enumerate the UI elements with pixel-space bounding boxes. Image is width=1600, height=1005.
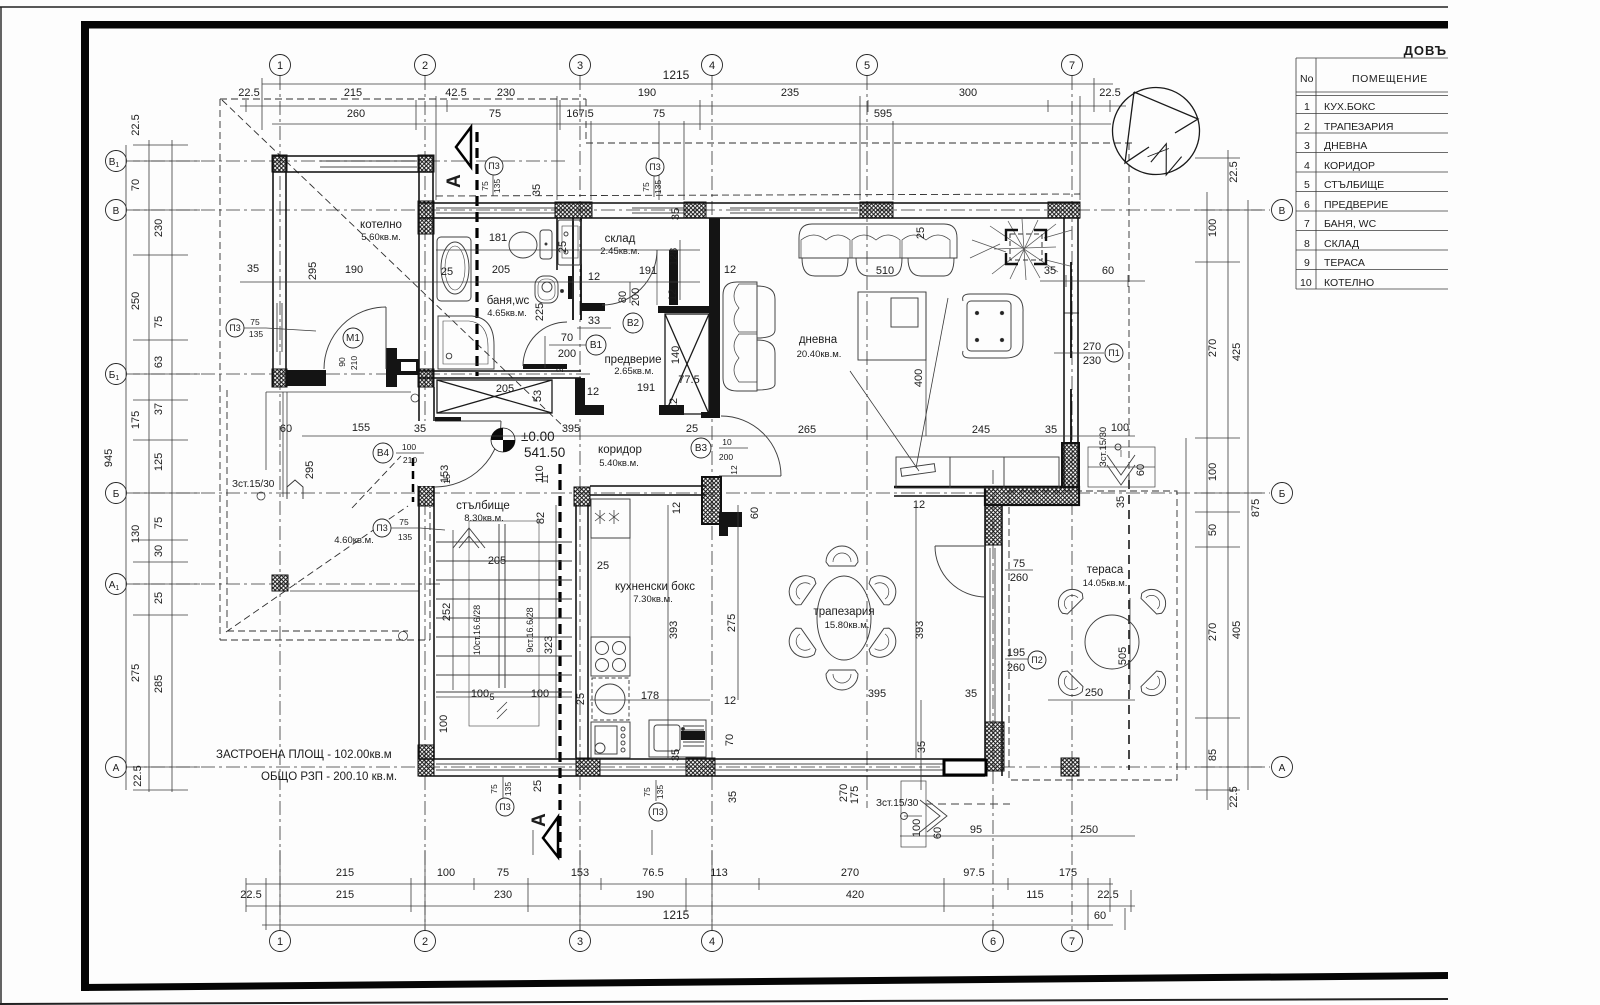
svg-text:12: 12	[724, 695, 736, 707]
svg-text:125: 125	[153, 453, 165, 471]
counter line	[591, 538, 630, 637]
hatched pier t2	[684, 202, 706, 218]
axis lines horizontal	[126, 161, 1270, 767]
oven knobs	[591, 722, 630, 758]
hatched column e1	[1062, 443, 1079, 487]
svg-text:260: 260	[1007, 662, 1025, 674]
svg-text:75: 75	[642, 787, 652, 797]
terrace steps symbol	[901, 781, 1011, 847]
svg-text:153: 153	[571, 867, 589, 879]
black niche	[568, 276, 572, 299]
svg-text:4.60кв.м.: 4.60кв.м.	[334, 535, 374, 546]
bath south wall / corridor band	[419, 371, 581, 378]
south wall black segment	[944, 760, 986, 775]
bubble B1 left	[106, 364, 127, 385]
svg-text:135: 135	[249, 329, 263, 339]
hatched pier t1	[555, 202, 592, 218]
shower	[438, 316, 494, 369]
svg-text:295: 295	[304, 461, 316, 479]
svg-text:12: 12	[667, 289, 679, 301]
bubble V1 left	[106, 151, 127, 172]
section line A-A bottom	[529, 464, 560, 858]
svg-text:ДОВЪ: ДОВЪ	[1404, 43, 1447, 58]
svg-text:П3: П3	[376, 523, 387, 533]
svg-text:15.80кв.м.: 15.80кв.м.	[825, 620, 870, 631]
svg-text:П3: П3	[488, 161, 499, 171]
svg-text:60: 60	[932, 827, 944, 839]
svg-text:22.5: 22.5	[1099, 87, 1120, 99]
svg-text:12: 12	[671, 502, 683, 514]
svg-text:12: 12	[729, 465, 739, 475]
left dimension chains	[103, 114, 200, 792]
terrace dashed outline	[1009, 491, 1177, 780]
svg-text:75: 75	[641, 182, 651, 192]
B1 marker	[586, 335, 606, 355]
bubble 6 bottom	[983, 931, 1004, 952]
P3 marker 6	[649, 803, 667, 821]
svg-text:кухненски бокс: кухненски бокс	[615, 581, 695, 593]
svg-text:75: 75	[489, 784, 499, 794]
svg-text:предверие: предверие	[604, 354, 661, 366]
corridor north wall seg1	[575, 405, 604, 415]
svg-text:25: 25	[915, 227, 927, 239]
dnevna-terrace steps symbol	[1088, 444, 1155, 487]
svg-text:210: 210	[349, 356, 359, 370]
svg-text:А: А	[1279, 763, 1286, 774]
svg-text:75: 75	[153, 316, 165, 328]
svg-text:113: 113	[710, 867, 728, 879]
svg-text:котелно: котелно	[360, 219, 402, 231]
bath door	[523, 364, 567, 369]
terrace door	[935, 546, 986, 597]
svg-text:В: В	[113, 206, 120, 217]
svg-text:35: 35	[414, 423, 426, 435]
roof diagonal	[222, 100, 565, 428]
B2 marker	[623, 313, 643, 333]
svg-text:945: 945	[103, 449, 115, 467]
svg-text:30: 30	[153, 545, 165, 557]
svg-text:405: 405	[1231, 621, 1243, 639]
boiler	[558, 220, 581, 265]
hatched column w1	[418, 486, 434, 506]
hatched column k5	[418, 201, 434, 234]
entry door	[435, 421, 501, 487]
svg-text:95: 95	[970, 824, 982, 836]
svg-text:300: 300	[959, 87, 977, 99]
hatched column k2	[418, 155, 434, 172]
svg-text:22.5: 22.5	[1228, 786, 1240, 807]
svg-text:7: 7	[1069, 936, 1075, 948]
armchair	[963, 294, 1023, 358]
hatched pier s1	[418, 745, 434, 776]
svg-text:50: 50	[1207, 524, 1219, 536]
svg-text:60: 60	[280, 423, 292, 435]
svg-text:10: 10	[722, 437, 732, 447]
svg-text:135: 135	[653, 180, 663, 194]
kotelno right wall	[419, 156, 433, 387]
svg-text:7.30кв.м.: 7.30кв.м.	[633, 594, 673, 605]
svg-text:3: 3	[1304, 140, 1310, 152]
svg-text:25: 25	[153, 592, 165, 604]
svg-text:178: 178	[641, 690, 659, 702]
svg-text:230: 230	[494, 889, 512, 901]
svg-text:37: 37	[153, 403, 165, 415]
kitchen corner L	[719, 512, 742, 536]
hatched column tw1	[985, 505, 1002, 545]
svg-text:100: 100	[438, 715, 450, 733]
svg-text:33: 33	[588, 315, 600, 327]
bubble A1 left	[106, 574, 127, 595]
svg-text:90: 90	[337, 357, 347, 367]
svg-text:75: 75	[153, 517, 165, 529]
svg-text:11: 11	[540, 474, 550, 483]
svg-text:230: 230	[153, 219, 165, 237]
svg-text:9: 9	[1304, 257, 1310, 269]
svg-text:22.5: 22.5	[1097, 889, 1118, 901]
leader lines dnevna	[850, 371, 919, 471]
svg-text:ДНЕВНА: ДНЕВНА	[1324, 140, 1367, 152]
svg-text:22.5: 22.5	[240, 889, 261, 901]
bathtub	[437, 237, 471, 301]
hatched column k4	[418, 369, 434, 387]
svg-text:97.5: 97.5	[963, 867, 984, 879]
right dimension chains	[1186, 150, 1262, 810]
svg-text:100: 100	[911, 819, 923, 837]
svg-text:63: 63	[153, 356, 165, 368]
svg-text:10ст.16.6/28: 10ст.16.6/28	[472, 605, 482, 655]
svg-text:1215: 1215	[663, 908, 690, 922]
svg-text:275: 275	[726, 614, 738, 632]
svg-text:5.40кв.м.: 5.40кв.м.	[599, 458, 639, 469]
svg-text:7: 7	[1304, 218, 1310, 230]
svg-text:100: 100	[1207, 219, 1219, 237]
svg-text:60: 60	[1102, 265, 1114, 277]
svg-text:А: А	[113, 763, 120, 774]
svg-text:35: 35	[531, 184, 543, 196]
svg-text:70: 70	[561, 332, 573, 344]
svg-text:35: 35	[916, 741, 928, 753]
svg-text:коридор: коридор	[598, 444, 642, 456]
axis Bb1	[126, 373, 590, 375]
svg-text:75: 75	[250, 317, 260, 327]
svg-text:85: 85	[1207, 749, 1219, 761]
bubble 4 top	[702, 55, 723, 76]
svg-text:167.5: 167.5	[566, 108, 594, 120]
svg-text:425: 425	[1231, 343, 1243, 361]
hatched band south of living room	[985, 487, 1079, 505]
svg-text:77.5: 77.5	[678, 374, 699, 386]
svg-text:1215: 1215	[663, 68, 690, 82]
svg-text:9ст.16.6/28: 9ст.16.6/28	[525, 607, 535, 652]
P3 marker 1	[485, 157, 503, 175]
svg-text:140: 140	[670, 346, 682, 364]
predverie east wall	[709, 218, 720, 418]
axis B1	[126, 160, 565, 162]
svg-text:230: 230	[1083, 355, 1101, 367]
svg-text:100: 100	[1111, 422, 1129, 434]
svg-text:В3: В3	[695, 443, 708, 454]
svg-text:100: 100	[1207, 463, 1219, 481]
svg-text:25: 25	[575, 693, 587, 705]
corridor north wall stub	[575, 378, 585, 411]
kotelno top wall	[273, 156, 433, 172]
svg-text:8.30кв.м.: 8.30кв.м.	[464, 513, 504, 524]
svg-text:7: 7	[1069, 60, 1075, 72]
svg-text:10: 10	[1300, 277, 1312, 289]
axis 6	[992, 470, 994, 930]
svg-text:25: 25	[686, 423, 698, 435]
entry door opening (gap white)	[418, 421, 435, 486]
svg-text:П3: П3	[652, 807, 663, 817]
bubble 7 top	[1062, 55, 1083, 76]
svg-text:3: 3	[577, 60, 583, 72]
svg-text:393: 393	[668, 621, 680, 639]
svg-text:25: 25	[557, 241, 569, 253]
svg-text:75: 75	[399, 517, 409, 527]
svg-text:22.5: 22.5	[1228, 161, 1240, 182]
svg-text:В: В	[1279, 206, 1286, 217]
svg-text:1: 1	[277, 60, 283, 72]
svg-text:215: 215	[344, 87, 362, 99]
svg-text:395: 395	[562, 423, 580, 435]
axis 5	[866, 76, 868, 808]
svg-text:склад: склад	[605, 233, 636, 245]
svg-text:135: 135	[492, 179, 502, 193]
svg-text:252: 252	[441, 603, 453, 621]
svg-text:Зст.15/30: Зст.15/30	[876, 798, 919, 809]
hatched pier t3	[860, 202, 893, 218]
grid bubbles left	[106, 151, 127, 778]
svg-text:82: 82	[535, 512, 547, 524]
svg-text:510: 510	[876, 265, 894, 277]
svg-text:75: 75	[480, 181, 490, 191]
svg-text:205: 205	[488, 555, 506, 567]
hatched pier s3	[686, 758, 715, 776]
svg-text:260: 260	[347, 108, 365, 120]
bubble B left	[106, 483, 127, 504]
skald east wall	[669, 250, 678, 305]
svg-text:СКЛАД: СКЛАД	[1324, 238, 1359, 250]
svg-text:35: 35	[1115, 496, 1127, 508]
svg-text:22.5: 22.5	[132, 765, 144, 786]
bubble 3 bottom	[570, 931, 591, 952]
svg-text:2: 2	[1304, 121, 1310, 133]
B4 marker	[373, 443, 393, 463]
svg-text:235: 235	[781, 87, 799, 99]
axis Bb	[126, 492, 1270, 494]
svg-text:70: 70	[724, 734, 736, 746]
svg-text:No: No	[1300, 73, 1314, 85]
svg-text:ТРАПЕЗАРИЯ: ТРАПЕЗАРИЯ	[1324, 121, 1393, 133]
svg-text:8: 8	[1304, 238, 1310, 250]
svg-text:75: 75	[497, 867, 509, 879]
svg-text:215: 215	[336, 867, 354, 879]
svg-text:205: 205	[496, 383, 514, 395]
axis A	[126, 766, 1270, 768]
bubble 3 top	[570, 55, 591, 76]
grid bubbles bottom	[270, 931, 1083, 952]
svg-text:270: 270	[1083, 341, 1101, 353]
P2 marker	[1028, 651, 1046, 669]
svg-text:1: 1	[277, 936, 283, 948]
axis 7	[1071, 76, 1073, 930]
svg-text:М1: М1	[346, 333, 360, 344]
svg-text:20.40кв.м.: 20.40кв.м.	[797, 349, 842, 360]
svg-text:295: 295	[307, 262, 319, 280]
wardrobe X predverie	[665, 314, 709, 414]
svg-text:Зст.15/30: Зст.15/30	[232, 479, 275, 490]
toilet	[509, 230, 552, 259]
svg-text:ОБЩО РЗП - 200.10 кв.м.: ОБЩО РЗП - 200.10 кв.м.	[261, 771, 397, 783]
hatched column tw2	[985, 722, 1004, 771]
svg-text:100: 100	[471, 688, 489, 700]
svg-text:35: 35	[670, 208, 682, 220]
svg-text:ЗАСТРОЕНА ПЛОЩ - 102.00кв.м: ЗАСТРОЕНА ПЛОЩ - 102.00кв.м	[216, 749, 392, 761]
svg-text:4.65кв.м.: 4.65кв.м.	[487, 308, 527, 319]
top dimension chains	[238, 68, 1126, 200]
svg-text:В4: В4	[377, 448, 390, 459]
bath east wall	[557, 218, 581, 320]
svg-text:205: 205	[492, 264, 510, 276]
svg-text:215: 215	[336, 889, 354, 901]
svg-text:стълбище: стълбище	[456, 500, 510, 512]
svg-text:12: 12	[588, 271, 600, 283]
svg-text:191: 191	[639, 265, 657, 277]
svg-text:393: 393	[914, 621, 926, 639]
svg-text:191: 191	[637, 382, 655, 394]
svg-text:395: 395	[868, 688, 886, 700]
svg-text:505: 505	[1117, 647, 1129, 665]
svg-text:12: 12	[913, 499, 925, 511]
svg-text:100: 100	[531, 688, 549, 700]
svg-text:КОТЕЛНО: КОТЕЛНО	[1324, 277, 1374, 289]
svg-text:14.05кв.м.: 14.05кв.м.	[1083, 578, 1128, 589]
svg-text:трапезария: трапезария	[813, 606, 874, 618]
skald door	[602, 250, 657, 305]
svg-text:Зст.15/30: Зст.15/30	[1098, 427, 1109, 467]
svg-text:155: 155	[352, 422, 370, 434]
svg-text:80: 80	[617, 291, 629, 303]
svg-text:35: 35	[247, 263, 259, 275]
svg-text:225: 225	[534, 303, 546, 321]
svg-text:285: 285	[153, 675, 165, 693]
P3 marker 5	[496, 798, 514, 816]
svg-text:270: 270	[1207, 623, 1219, 641]
svg-text:250: 250	[1080, 824, 1098, 836]
svg-text:5: 5	[489, 692, 494, 702]
hatched pier s2	[576, 758, 600, 776]
svg-text:5: 5	[864, 60, 870, 72]
svg-text:60: 60	[1135, 464, 1147, 476]
svg-text:12: 12	[724, 264, 736, 276]
hatched pier t4	[1048, 202, 1080, 218]
hatched column k3	[272, 369, 287, 387]
kitchen west wall (stairs divider)	[576, 505, 588, 758]
sink counter	[649, 720, 706, 757]
corridor south wall at dining	[894, 487, 1062, 496]
svg-text:875: 875	[1250, 499, 1262, 517]
hatched column k1	[272, 155, 287, 172]
svg-text:70: 70	[130, 179, 142, 191]
svg-text:75: 75	[489, 108, 501, 120]
svg-text:2.65кв.м.: 2.65кв.м.	[614, 366, 654, 377]
svg-text:135: 135	[503, 782, 513, 796]
svg-text:КОРИДОР: КОРИДОР	[1324, 160, 1375, 172]
svg-text:130: 130	[130, 525, 142, 543]
axis 1	[279, 76, 281, 930]
corridor north wall seg2	[659, 405, 684, 415]
svg-text:КУХ.БОКС: КУХ.БОКС	[1324, 101, 1376, 113]
svg-text:22.5: 22.5	[130, 114, 142, 135]
svg-text:тераса: тераса	[1087, 564, 1124, 576]
svg-text:В1: В1	[590, 340, 603, 351]
svg-text:5.60кв.м.: 5.60кв.м.	[361, 232, 401, 243]
svg-text:2: 2	[422, 60, 428, 72]
P3 marker 3	[226, 319, 244, 337]
svg-text:76.5: 76.5	[642, 867, 663, 879]
svg-text:181: 181	[489, 232, 507, 244]
svg-text:260: 260	[1010, 572, 1028, 584]
skald south wall	[581, 303, 605, 311]
svg-text:35: 35	[670, 749, 682, 761]
svg-text:12: 12	[668, 398, 680, 410]
svg-text:42.5: 42.5	[445, 87, 466, 99]
B3 marker	[691, 438, 711, 458]
svg-text:БАНЯ, WC: БАНЯ, WC	[1324, 218, 1377, 230]
svg-text:В2: В2	[627, 318, 640, 329]
svg-text:А: А	[529, 813, 550, 827]
roof overhang dashed outline	[220, 99, 1133, 770]
svg-text:35: 35	[727, 791, 739, 803]
svg-text:100: 100	[402, 442, 416, 452]
east wall living room	[1064, 218, 1079, 487]
level marker	[491, 428, 565, 460]
P3 marker 4	[373, 519, 391, 537]
svg-text:400: 400	[913, 369, 925, 387]
stair dim lines	[436, 505, 572, 758]
hatched column kw1	[574, 487, 590, 506]
svg-text:35: 35	[1044, 265, 1056, 277]
P3 marker 2	[646, 158, 664, 176]
svg-text:2: 2	[555, 367, 565, 372]
main top wall	[419, 203, 1080, 218]
kotelno bottom wall + door M1 opening	[286, 370, 326, 386]
bubble V left	[106, 200, 127, 221]
svg-text:4: 4	[1304, 160, 1310, 172]
fireplace	[970, 219, 1072, 280]
section line A-A top	[444, 127, 477, 376]
terrace west wall	[985, 505, 1002, 776]
svg-text:25: 25	[441, 266, 453, 278]
svg-text:128: 128	[668, 248, 680, 266]
axis 2	[424, 76, 426, 930]
svg-text:ПРЕДВЕРИЕ: ПРЕДВЕРИЕ	[1324, 199, 1388, 211]
svg-text:22.5: 22.5	[238, 87, 259, 99]
washer	[592, 678, 629, 720]
svg-text:5: 5	[1304, 179, 1310, 191]
svg-text:595: 595	[874, 108, 892, 120]
north arrow	[1113, 88, 1200, 175]
sofa 2-seat left	[723, 282, 775, 391]
grid bubbles top	[270, 55, 1083, 76]
svg-text:200: 200	[719, 452, 733, 462]
bubble 2 bottom	[415, 931, 436, 952]
axis B	[126, 209, 1270, 211]
svg-text:баня,wc: баня,wc	[487, 295, 530, 307]
svg-text:135: 135	[655, 785, 665, 799]
svg-text:200: 200	[630, 288, 642, 306]
south wall	[419, 759, 985, 776]
